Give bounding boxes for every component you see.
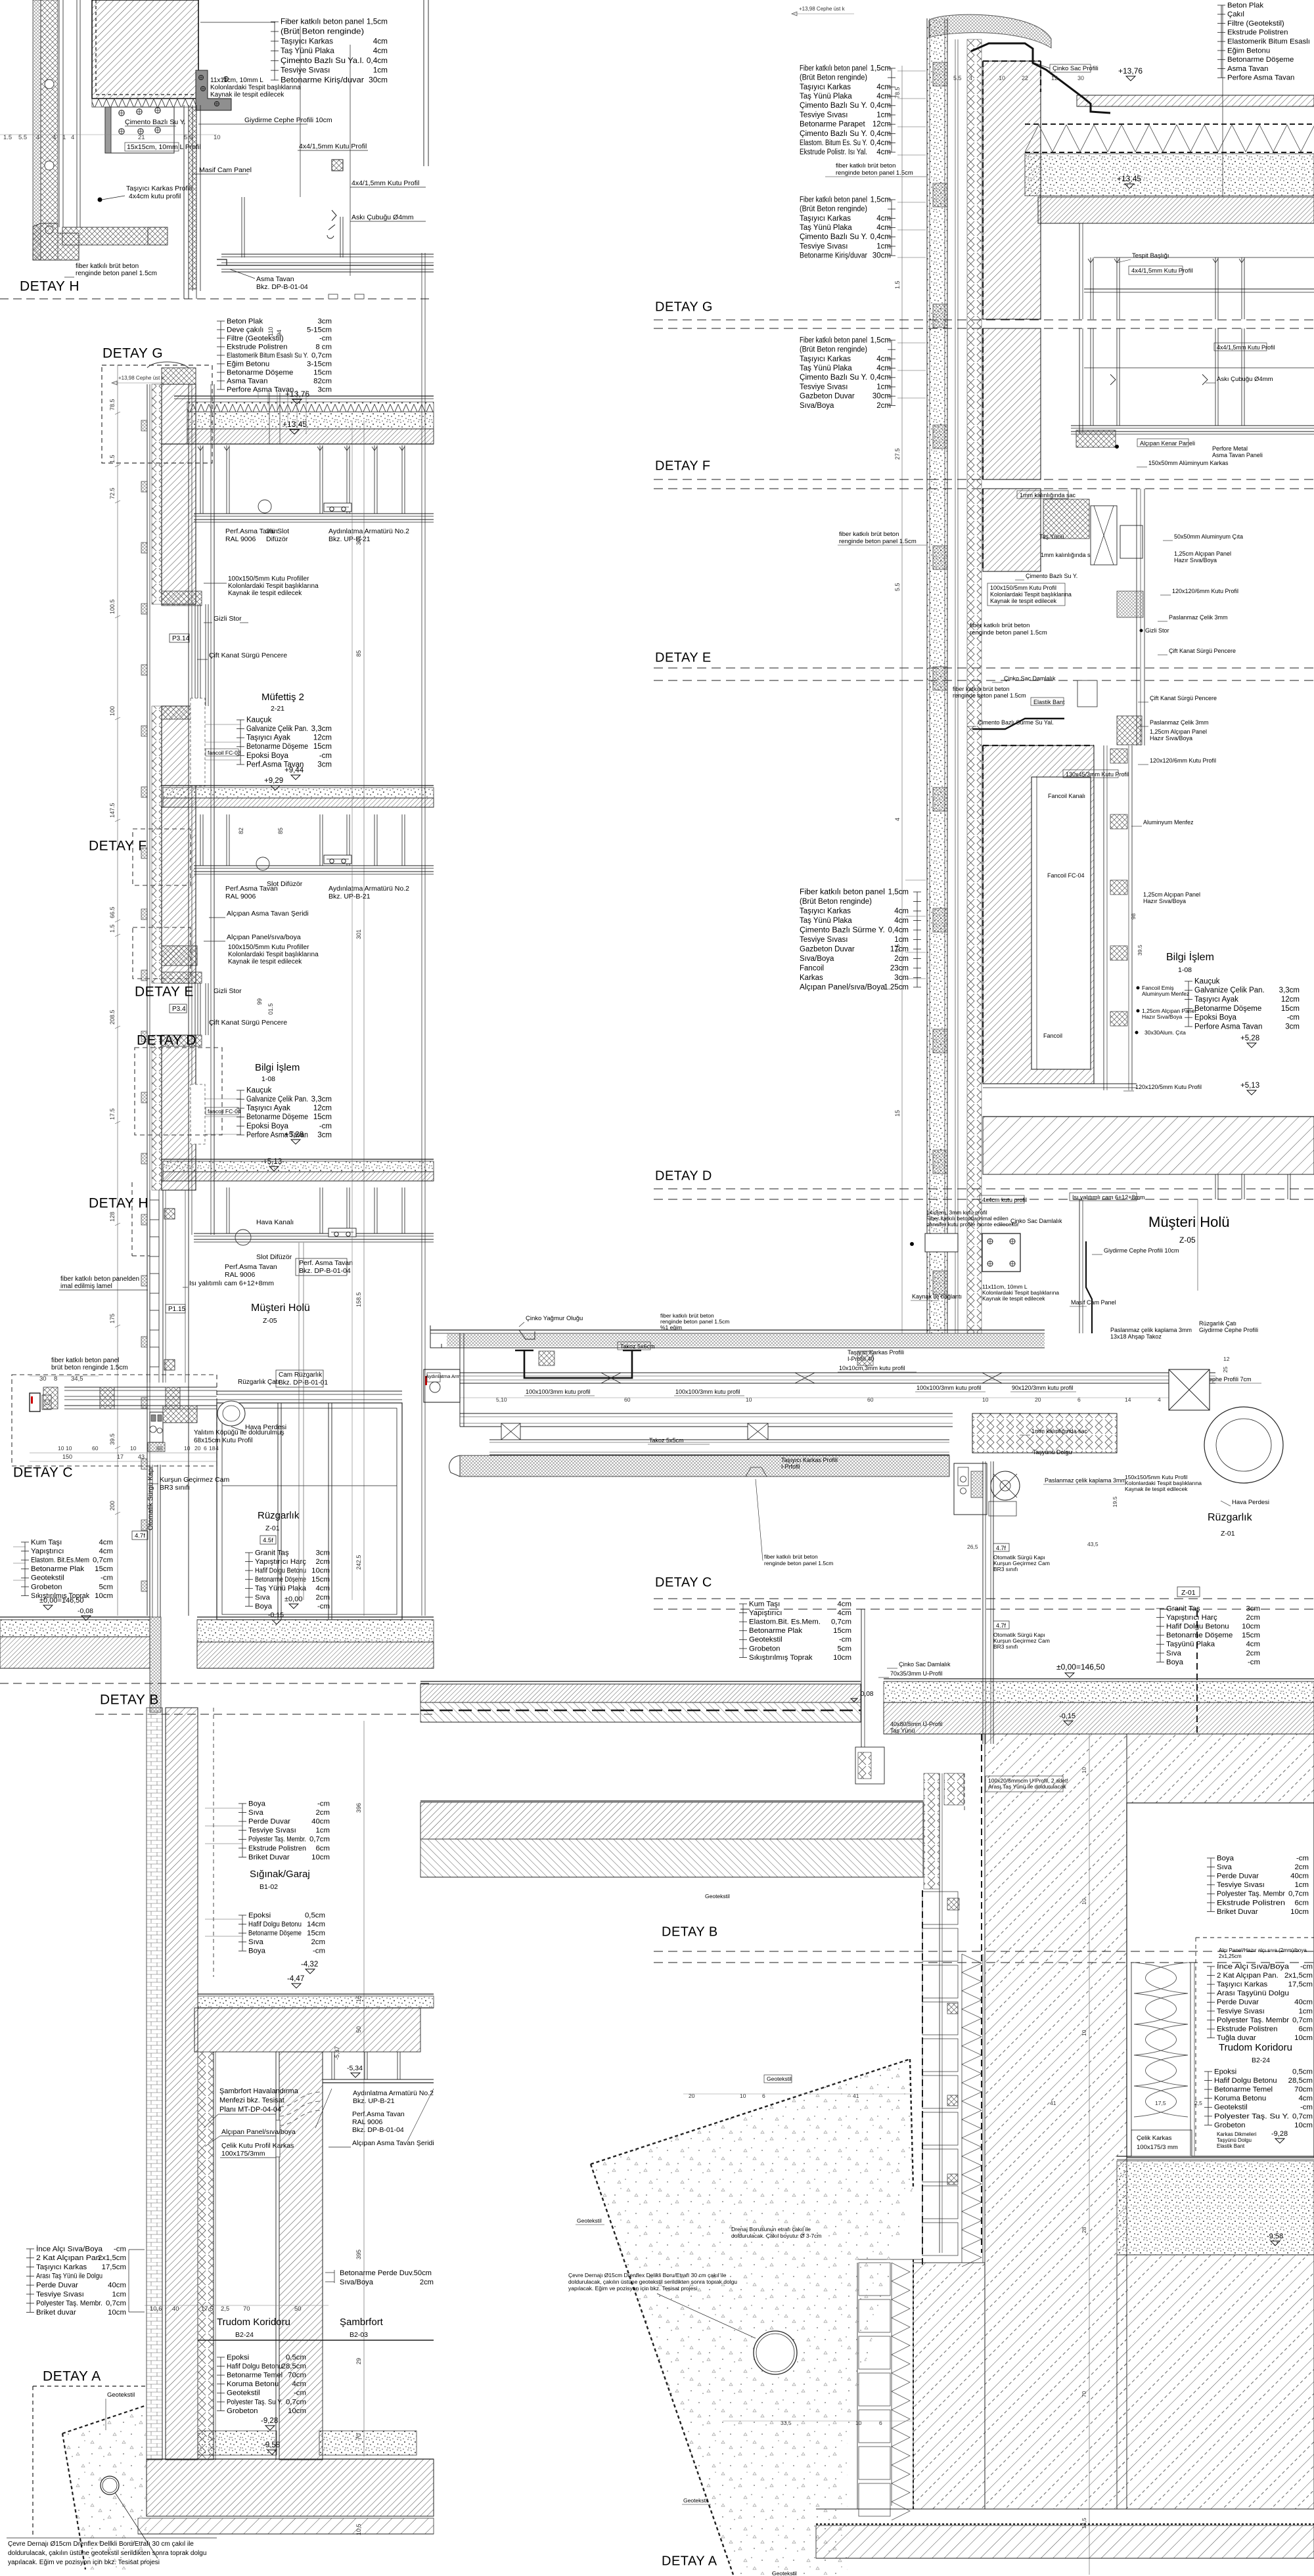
svg-text:+13,76: +13,76 [1118,66,1143,76]
svg-text:10: 10 [746,1396,752,1403]
svg-text:1mm kalınlığında sac: 1mm kalınlığında sac [1020,492,1076,499]
svg-text:Otomatik Sürgü Kapı: Otomatik Sürgü Kapı [147,1467,154,1530]
svg-text:Hava Perdesi: Hava Perdesi [1232,1499,1269,1506]
svg-text:-cm: -cm [319,752,332,760]
svg-text:Çakıl: Çakıl [1227,11,1244,18]
svg-text:Yapıştırıcı: Yapıştırıcı [31,1547,64,1555]
svg-text:40cm: 40cm [1294,1999,1313,2007]
svg-text:18: 18 [209,1445,215,1452]
svg-text:Ekstrude Polistren: Ekstrude Polistren [248,1844,306,1852]
svg-text:-cm: -cm [294,2389,306,2397]
svg-text:Bkz. UP-B-21: Bkz. UP-B-21 [353,2097,395,2105]
svg-text:3lü Slot: 3lü Slot [266,527,289,535]
svg-text:Menfezi bkz. Tesisat: Menfezi bkz. Tesisat [219,2097,284,2104]
svg-text:11x11cm, 10mm L: 11x11cm, 10mm L [210,77,263,84]
svg-text:3cm: 3cm [1246,1605,1260,1612]
svg-text:0,7cm: 0,7cm [93,1557,113,1565]
svg-text:Hazır Sıva/Boya: Hazır Sıva/Boya [1150,735,1192,742]
svg-text:fancoil FC-04: fancoil FC-04 [208,1108,241,1115]
svg-text:Geotekstil: Geotekstil [705,1893,730,1899]
svg-text:Z-01: Z-01 [1181,1589,1196,1597]
svg-text:Koruma Betonu: Koruma Betonu [227,2380,279,2388]
svg-text:78.5: 78.5 [894,87,901,99]
svg-text:Planı MT-DP-04-04: Planı MT-DP-04-04 [219,2106,281,2114]
svg-text:Perfore Asma Tavan: Perfore Asma Tavan [1194,1023,1262,1031]
svg-text:Perf.Asma Tavan: Perf.Asma Tavan [225,1263,277,1271]
svg-text:17,5cm: 17,5cm [102,2263,126,2271]
svg-text:2cm: 2cm [311,1938,325,1946]
svg-text:Trudom Koridoru: Trudom Koridoru [217,2317,290,2328]
svg-text:Alçıpan Asma Tavan Şeridi: Alçıpan Asma Tavan Şeridi [352,2139,434,2147]
svg-text:3cm: 3cm [315,1549,330,1557]
svg-text:fiber katkılı brüt beton: fiber katkılı brüt beton [76,263,139,270]
svg-text:Betonarme Temel: Betonarme Temel [227,2372,283,2380]
svg-text:Epoksi Boya: Epoksi Boya [1194,1014,1237,1022]
svg-text:Bilgi İşlem: Bilgi İşlem [1166,950,1214,963]
svg-text:301: 301 [355,929,362,939]
svg-text:15cm: 15cm [311,1576,330,1584]
svg-text:3,3cm: 3,3cm [1279,987,1300,994]
svg-text:0,7cm: 0,7cm [1292,2112,1313,2120]
svg-text:242.5: 242.5 [355,1555,362,1570]
svg-text:Rüzgarlık: Rüzgarlık [1208,1512,1253,1523]
svg-text:Müşteri Holü: Müşteri Holü [251,1302,310,1314]
svg-text:-cm: -cm [313,1947,325,1955]
svg-text:Asma Tavan: Asma Tavan [256,275,294,283]
svg-text:(Brüt Beton renginde): (Brüt Beton renginde) [281,26,364,35]
svg-text:50cm: 50cm [414,2269,432,2277]
svg-text:8 cm: 8 cm [315,343,332,351]
svg-text:15cm: 15cm [313,1113,332,1121]
svg-text:Hazır Sıva/Boya: Hazır Sıva/Boya [1174,557,1217,564]
svg-text:120x120/6mm Kutu Profil: 120x120/6mm Kutu Profil [1150,757,1216,764]
svg-text:Briket duvar: Briket duvar [36,2309,76,2317]
svg-text:10: 10 [58,1445,64,1452]
svg-text:DETAY G: DETAY G [102,345,163,361]
svg-text:Taşıyıcı Karkas: Taşıyıcı Karkas [281,36,333,45]
svg-text:28,5cm: 28,5cm [282,2363,306,2370]
svg-text:Aluminyum Menfez: Aluminyum Menfez [1143,819,1194,826]
svg-text:39.5: 39.5 [109,1433,116,1445]
svg-text:Taşıyıcı Karkas: Taşıyıcı Karkas [36,2263,87,2271]
svg-text:4x4cm kutu profil: 4x4cm kutu profil [982,1197,1027,1203]
svg-text:Alçı Panel/Hazır alçı sıva (2m: Alçı Panel/Hazır alçı sıva (2mm)/boya [1219,1947,1307,1953]
svg-text:Tesviye Sıvası: Tesviye Sıvası [36,2290,84,2298]
svg-text:Çinko Sac Damlalık: Çinko Sac Damlalık [899,1661,951,1668]
svg-text:Elastom. Bit.Es.Mem: Elastom. Bit.Es.Mem [31,1557,89,1565]
svg-text:B2-03: B2-03 [350,2331,368,2339]
svg-text:B1-02: B1-02 [260,1883,278,1891]
svg-text:17.5: 17.5 [109,1108,116,1120]
svg-text:30cm: 30cm [872,252,891,260]
svg-text:395: 395 [355,2250,362,2259]
svg-text:2-21: 2-21 [271,705,284,713]
svg-text:doldurulacak. Çakıl boyutu: Ø: doldurulacak. Çakıl boyutu: Ø 3-7cm [731,2232,821,2239]
svg-text:renginde beton panel 1.5cm: renginde beton panel 1.5cm [953,692,1026,699]
svg-text:17: 17 [117,1454,124,1460]
svg-text:Kaynak ile tespit edilecek: Kaynak ile tespit edilecek [1125,1486,1188,1492]
svg-text:12: 12 [1051,75,1058,81]
svg-text:fiber katkılı brüt beton: fiber katkılı brüt beton [839,531,899,538]
svg-text:Bkz. DP-B-01-04: Bkz. DP-B-01-04 [352,2126,404,2134]
svg-text:1cm: 1cm [876,383,891,391]
svg-text:2x1,5cm: 2x1,5cm [98,2254,126,2262]
svg-text:Çimento Bazlı Su Y.: Çimento Bazlı Su Y. [800,233,867,241]
svg-text:Boya: Boya [248,1947,266,1955]
svg-text:Briket Duvar: Briket Duvar [1217,1908,1258,1916]
svg-text:P3.4: P3.4 [172,1006,186,1013]
svg-text:12cm: 12cm [313,734,332,742]
svg-text:Z-05: Z-05 [263,1317,277,1325]
svg-text:Çinko Sac Damlalık: Çinko Sac Damlalık [1010,1218,1062,1224]
svg-text:Aydınlatma Armatürü No.2: Aydınlatma Armatürü No.2 [353,2089,434,2097]
svg-text:Boya: Boya [255,1603,273,1610]
svg-text:Betonarme Döşeme: Betonarme Döşeme [246,1113,308,1121]
svg-text:Taşıyıcı Karkas: Taşıyıcı Karkas [800,907,851,915]
svg-text:50x50mm Aluminyum Çıta: 50x50mm Aluminyum Çıta [1174,533,1243,540]
svg-text:30cm: 30cm [369,75,388,84]
svg-text:Betonarme Döşeme: Betonarme Döşeme [1227,56,1294,64]
svg-text:15cm: 15cm [307,1930,325,1938]
svg-text:Şambrfort: Şambrfort [340,2317,384,2328]
svg-text:19.5: 19.5 [1112,1496,1118,1507]
svg-text:1cm: 1cm [894,936,909,944]
svg-text:1,25cm Alçıpan Panel: 1,25cm Alçıpan Panel [1150,728,1207,735]
svg-text:158.5: 158.5 [355,1292,362,1307]
svg-text:RAL 9006: RAL 9006 [225,893,256,900]
svg-text:10x10cm,3mm kutu profil: 10x10cm,3mm kutu profil [839,1365,905,1371]
svg-text:renginde beton panel 1.5cm: renginde beton panel 1.5cm [76,270,157,277]
svg-text:4cm: 4cm [876,83,891,91]
svg-text:10cm: 10cm [1294,2034,1313,2042]
svg-text:+13,98 Cephe üst k: +13,98 Cephe üst k [799,6,846,12]
svg-text:130x45/3mm Kutu Profil: 130x45/3mm Kutu Profil [1066,771,1129,778]
svg-text:Giydirme Cephe Profili 10cm: Giydirme Cephe Profili 10cm [1104,1247,1179,1254]
svg-text:90x120/3mm kutu profil: 90x120/3mm kutu profil [1012,1385,1074,1391]
svg-text:Giydirme Cephe Profili: Giydirme Cephe Profili [1199,1327,1258,1333]
svg-text:Taş Yünü Plaka: Taş Yünü Plaka [800,224,852,232]
svg-text:Ekstrude Polistren: Ekstrude Polistren [1227,29,1288,37]
svg-text:Geotekstil: Geotekstil [749,1636,782,1644]
svg-text:1.5: 1.5 [109,924,116,933]
svg-text:Ekstrude Polistr. Isı Yal.: Ekstrude Polistr. Isı Yal. [800,148,867,156]
svg-text:BR3 sınıfı: BR3 sınıfı [993,1566,1018,1572]
svg-text:10: 10 [1081,2030,1087,2036]
svg-text:Elastomerik Bitum Esaslı Su Y.: Elastomerik Bitum Esaslı Su Y. [227,351,308,359]
svg-text:0,5cm: 0,5cm [1292,2068,1313,2076]
svg-text:DETAY C: DETAY C [13,1465,73,1480]
svg-text:41: 41 [853,2093,859,2099]
svg-text:Elastik Bant: Elastik Bant [1033,699,1065,705]
svg-text:-cm: -cm [839,1636,851,1644]
svg-text:1cm: 1cm [876,242,891,250]
svg-text:Tesviye Sıvası: Tesviye Sıvası [1217,1881,1265,1889]
svg-text:1,5cm: 1,5cm [871,336,891,344]
svg-text:29: 29 [355,2358,362,2365]
svg-text:70: 70 [243,2305,250,2313]
svg-text:+5,28: +5,28 [1240,1034,1259,1042]
svg-text:Isı yalıtımlı cam 6+12+8mm: Isı yalıtımlı cam 6+12+8mm [189,1279,274,1287]
svg-text:Arası Taş Yünü ile Dolgu: Arası Taş Yünü ile Dolgu [36,2273,102,2280]
svg-text:Kolonlardaki Tespit başlıkları: Kolonlardaki Tespit başlıklarına [990,591,1072,598]
svg-text:Elastomerik Bitum Esaslı: Elastomerik Bitum Esaslı [1227,38,1310,46]
svg-text:Betonarme Kiriş/duvar: Betonarme Kiriş/duvar [281,75,364,84]
svg-text:Şambrfort Havalandırma: Şambrfort Havalandırma [219,2087,299,2095]
svg-text:100x100/3mm kutu profil: 100x100/3mm kutu profil [526,1388,591,1395]
svg-text:20: 20 [1035,1396,1041,1403]
svg-text:Tuğla duvar: Tuğla duvar [1217,2034,1256,2042]
svg-text:70cm: 70cm [288,2372,306,2380]
svg-text:1-08: 1-08 [261,1075,275,1083]
svg-text:Tesviye Sıvası: Tesviye Sıvası [800,242,848,250]
svg-text:175: 175 [109,1314,116,1323]
svg-text:4x4cm kutu profil: 4x4cm kutu profil [129,192,181,200]
svg-text:BR3 sınıfı: BR3 sınıfı [993,1643,1018,1650]
svg-text:Çimento Bazlı Su Y.: Çimento Bazlı Su Y. [800,374,867,382]
svg-text:110: 110 [267,327,274,336]
svg-text:Grobeton: Grobeton [227,2407,258,2415]
svg-text:B2-24: B2-24 [235,2331,254,2339]
svg-text:12cm: 12cm [1281,996,1300,1004]
svg-text:4: 4 [894,818,901,821]
svg-text:Karkas: Karkas [800,974,823,982]
svg-text:Sıva/Boya: Sıva/Boya [800,955,834,963]
svg-text:Epoksi Boya: Epoksi Boya [246,1122,289,1130]
svg-text:Ekstrude Polistren: Ekstrude Polistren [227,343,287,351]
svg-text:4cm: 4cm [876,355,891,363]
svg-text:Grobeton: Grobeton [31,1583,62,1591]
svg-text:30: 30 [1077,75,1084,81]
svg-text:15cm: 15cm [1281,1005,1300,1013]
svg-text:Çimento Bazlı Sürme Su Yal.: Çimento Bazlı Sürme Su Yal. [978,719,1054,726]
svg-text:0,7cm: 0,7cm [311,351,332,359]
svg-text:Polyester Taş. Membr.: Polyester Taş. Membr. [36,2299,102,2307]
svg-text:4x4/1,5mm Kutu Profil: 4x4/1,5mm Kutu Profil [351,179,419,187]
svg-text:Perf.Asma Tavan: Perf.Asma Tavan [352,2110,405,2118]
svg-text:DETAY D: DETAY D [137,1033,196,1048]
svg-text:100: 100 [109,706,116,716]
svg-text:Kaynak ile bağlantı: Kaynak ile bağlantı [912,1293,962,1300]
svg-text:Tespit Başlığı: Tespit Başlığı [1132,252,1169,259]
svg-text:Hafif Dolgu Betonu: Hafif Dolgu Betonu [1166,1623,1229,1631]
svg-text:Giydirme Cephe Profili 10cm: Giydirme Cephe Profili 10cm [244,116,332,124]
svg-text:DETAY B: DETAY B [662,1925,718,1940]
svg-text:25: 25 [1222,1366,1229,1373]
svg-text:5cm: 5cm [837,1645,851,1653]
svg-text:Betonarme Döşeme: Betonarme Döşeme [227,368,293,376]
svg-text:1cm: 1cm [1294,1881,1309,1889]
svg-text:4cm: 4cm [876,365,891,372]
svg-text:Asma Tavan Paneli: Asma Tavan Paneli [1212,452,1263,458]
svg-text:0,4cm: 0,4cm [367,56,388,65]
svg-text:Isı yalıtımlı cam 6+12+8mm: Isı yalıtımlı cam 6+12+8mm [1072,1194,1145,1201]
svg-text:Kolonlardaki Tespit başlıkları: Kolonlardaki Tespit başlıklarına [228,583,319,590]
svg-text:Hafif Dolgu Betonu: Hafif Dolgu Betonu [255,1567,306,1575]
svg-text:0,4cm: 0,4cm [871,130,891,138]
svg-text:Geotekstil: Geotekstil [577,2217,602,2224]
svg-text:-9,28: -9,28 [1271,2130,1288,2138]
svg-text:40x80/5mm Ü-Profil: 40x80/5mm Ü-Profil [890,1721,943,1727]
svg-text:10cm: 10cm [288,2407,306,2415]
svg-text:30cm: 30cm [872,393,891,401]
svg-text:Polyester Taş. Su Y.: Polyester Taş. Su Y. [1214,2112,1289,2120]
svg-text:Kum Taşı: Kum Taşı [749,1600,780,1608]
svg-text:-cm: -cm [1248,1658,1260,1666]
svg-text:Çimento Bazlı Su Y.: Çimento Bazlı Su Y. [800,102,867,110]
svg-text:27.5: 27.5 [894,448,901,460]
svg-text:B2-24: B2-24 [1252,2056,1270,2064]
svg-text:85: 85 [355,650,362,657]
svg-text:Çimento Bazlı Sürme Y.: Çimento Bazlı Sürme Y. [800,926,885,934]
svg-text:3,3cm: 3,3cm [311,1096,332,1103]
svg-text:Kauçuk: Kauçuk [246,1086,272,1094]
svg-text:Polyester Taş. Membr: Polyester Taş. Membr [1217,2016,1289,2024]
svg-text:2cm: 2cm [1246,1614,1260,1622]
svg-text:5-15cm: 5-15cm [307,326,332,334]
svg-text:Koruma Betonu: Koruma Betonu [1214,2095,1266,2102]
svg-text:0,7cm: 0,7cm [309,1836,330,1844]
svg-text:Aydınlatma Arm: Aydınlatma Arm [426,1373,461,1379]
svg-text:78.5: 78.5 [109,399,116,411]
svg-text:10: 10 [184,1445,191,1452]
svg-text:BR3 sınıfı: BR3 sınıfı [160,1484,190,1492]
svg-text:Taş Yünü Plaka: Taş Yünü Plaka [800,93,852,100]
svg-text:4: 4 [36,134,39,141]
svg-text:2cm: 2cm [315,1558,330,1566]
svg-text:fiber katkılı brüt beton: fiber katkılı brüt beton [970,622,1030,629]
svg-text:10: 10 [66,1445,72,1452]
svg-text:paneller kutu profile monte ed: paneller kutu profile monte edilecektir [926,1221,1019,1228]
svg-text:Çimento Bazlı Su Y.: Çimento Bazlı Su Y. [800,130,867,138]
svg-text:DETAY A: DETAY A [662,2554,717,2569]
svg-text:10cm: 10cm [108,2309,126,2317]
svg-text:P3.14: P3.14 [172,635,190,642]
svg-text:Betonarme Döşeme: Betonarme Döşeme [246,743,308,751]
svg-text:4.7f: 4.7f [996,1622,1007,1629]
svg-text:DETAY B: DETAY B [100,1692,159,1707]
svg-text:Granit Taş: Granit Taş [255,1549,289,1557]
svg-text:Betonarme Parapet: Betonarme Parapet [800,121,866,129]
svg-text:Eğim Betonu: Eğim Betonu [227,360,269,368]
svg-text:10cm: 10cm [833,1654,851,1662]
svg-text:Betonarme Plak: Betonarme Plak [31,1565,84,1573]
svg-text:-5,37: -5,37 [334,2046,340,2060]
svg-text:Yapıştırıcı Harç: Yapıştırıcı Harç [1166,1614,1217,1622]
svg-text:Müşteri Holü: Müşteri Holü [1148,1214,1229,1230]
svg-text:4x4/1,5mm Kutu Profil: 4x4/1,5mm Kutu Profil [299,143,367,150]
svg-text:Tesviye Sıvası: Tesviye Sıvası [1217,2007,1265,2015]
svg-text:fiber katkılı brüt beton: fiber katkılı brüt beton [764,1553,818,1560]
svg-text:Kurşun Geçirmez Cam: Kurşun Geçirmez Cam [160,1476,229,1484]
svg-text:28: 28 [1081,2227,1087,2233]
svg-text:0,5cm: 0,5cm [286,2353,306,2361]
svg-text:Betonarme Döşeme: Betonarme Döşeme [1194,1005,1261,1013]
svg-text:Fiber katkılı beton panel: Fiber katkılı beton panel [281,17,364,26]
svg-text:-cm: -cm [1296,1854,1309,1862]
svg-text:+13,45: +13,45 [283,420,307,429]
svg-text:DETAY D: DETAY D [655,1169,712,1184]
svg-text:Alçıpan Panel/sıva/Boya: Alçıpan Panel/sıva/Boya [800,983,886,991]
svg-text:-4,32: -4,32 [301,1961,318,1968]
svg-text:17,5: 17,5 [1155,2100,1166,2106]
svg-text:renginde beton panel 1.5cm: renginde beton panel 1.5cm [836,169,913,177]
svg-text:4.7f: 4.7f [135,1532,145,1540]
svg-text:(Brüt Beton renginde): (Brüt Beton renginde) [800,898,872,906]
svg-text:0,7cm: 0,7cm [1292,2016,1313,2024]
svg-text:renginde beton panel 1.5cm: renginde beton panel 1.5cm [970,629,1047,636]
svg-text:Taşıyıcı Ayak: Taşıyıcı Ayak [246,734,290,742]
svg-text:Çevre Dernajı Ø15cm Drenflex D: Çevre Dernajı Ø15cm Drenflex Delikli Bor… [568,2272,727,2278]
svg-text:10: 10 [999,75,1005,81]
svg-text:Bilgi İşlem: Bilgi İşlem [255,1061,300,1073]
svg-text:Sıva: Sıva [255,1593,270,1601]
svg-text:6: 6 [879,2420,882,2426]
svg-text:Ekstrude Polistren: Ekstrude Polistren [1217,1899,1285,1907]
svg-text:Elastom.Bit. Es.Mem.: Elastom.Bit. Es.Mem. [749,1618,821,1626]
svg-text:P1.15: P1.15 [168,1306,186,1313]
svg-text:Gazbeton Duvar: Gazbeton Duvar [800,945,855,953]
svg-text:Sıva: Sıva [248,1809,263,1817]
svg-text:Grobeton: Grobeton [749,1645,781,1653]
svg-text:Sıva: Sıva [1217,1863,1232,1871]
svg-text:3cm: 3cm [317,317,332,325]
svg-text:Perfore Metal: Perfore Metal [1212,445,1248,452]
svg-text:1.5: 1.5 [894,280,901,289]
svg-text:DETAY G: DETAY G [655,300,713,315]
svg-text:Geotekstil: Geotekstil [767,2076,792,2082]
svg-text:Gizli Stor: Gizli Stor [214,615,242,623]
svg-text:23cm: 23cm [890,964,909,972]
svg-text:Boya: Boya [248,1800,266,1808]
svg-text:Geotekstil: Geotekstil [772,2570,797,2576]
svg-text:Tesviye Sıvası: Tesviye Sıvası [800,936,848,944]
svg-text:20: 20 [689,2093,695,2099]
svg-text:Fancoil Kanalı: Fancoil Kanalı [1048,793,1085,799]
svg-text:Filtre (Geotekstil): Filtre (Geotekstil) [1227,20,1284,28]
svg-text:Sığınak/Garaj: Sığınak/Garaj [250,1869,310,1880]
svg-text:3-15cm: 3-15cm [307,360,332,368]
svg-text:150: 150 [62,1454,72,1460]
svg-text:+13,98 Cephe üst k.: +13,98 Cephe üst k. [118,375,166,381]
svg-text:renginde beton panel 1.5cm: renginde beton panel 1.5cm [764,1560,833,1566]
svg-text:208.5: 208.5 [109,1010,116,1025]
svg-text:99: 99 [256,998,263,1005]
svg-text:Çevre Dernajı Ø15cm Drenflex D: Çevre Dernajı Ø15cm Drenflex Delikli Bor… [8,2541,194,2548]
svg-text:Tesviye Sıvası: Tesviye Sıvası [248,1827,296,1834]
svg-text:Boya: Boya [1217,1854,1235,1862]
svg-text:-cm: -cm [1300,1963,1313,1970]
svg-text:70: 70 [1081,2391,1087,2397]
svg-text:2x1,25cm: 2x1,25cm [1219,1953,1242,1959]
svg-text:100x175/3mm: 100x175/3mm [221,2150,265,2158]
svg-text:İnce Alçı Sıva/Boya: İnce Alçı Sıva/Boya [36,2244,103,2253]
svg-text:21: 21 [138,134,145,141]
svg-text:4cm: 4cm [876,93,891,100]
svg-text:6cm: 6cm [1298,2026,1313,2033]
svg-text:30x30Alum. Çıta: 30x30Alum. Çıta [1144,1029,1186,1036]
svg-text:DETAY E: DETAY E [135,984,194,999]
svg-text:4: 4 [969,75,972,81]
svg-text:2cm: 2cm [420,2278,434,2286]
svg-text:41: 41 [1050,2100,1056,2106]
svg-text:10: 10 [214,134,221,141]
svg-text:4: 4 [1158,1396,1161,1403]
svg-text:85: 85 [277,828,284,834]
svg-text:Kaynak ile tespit edilecek: Kaynak ile tespit edilecek [210,91,284,99]
svg-text:1.25cm: 1.25cm [884,983,909,991]
svg-text:-cm: -cm [1287,1014,1300,1022]
svg-text:128: 128 [109,1212,116,1222]
